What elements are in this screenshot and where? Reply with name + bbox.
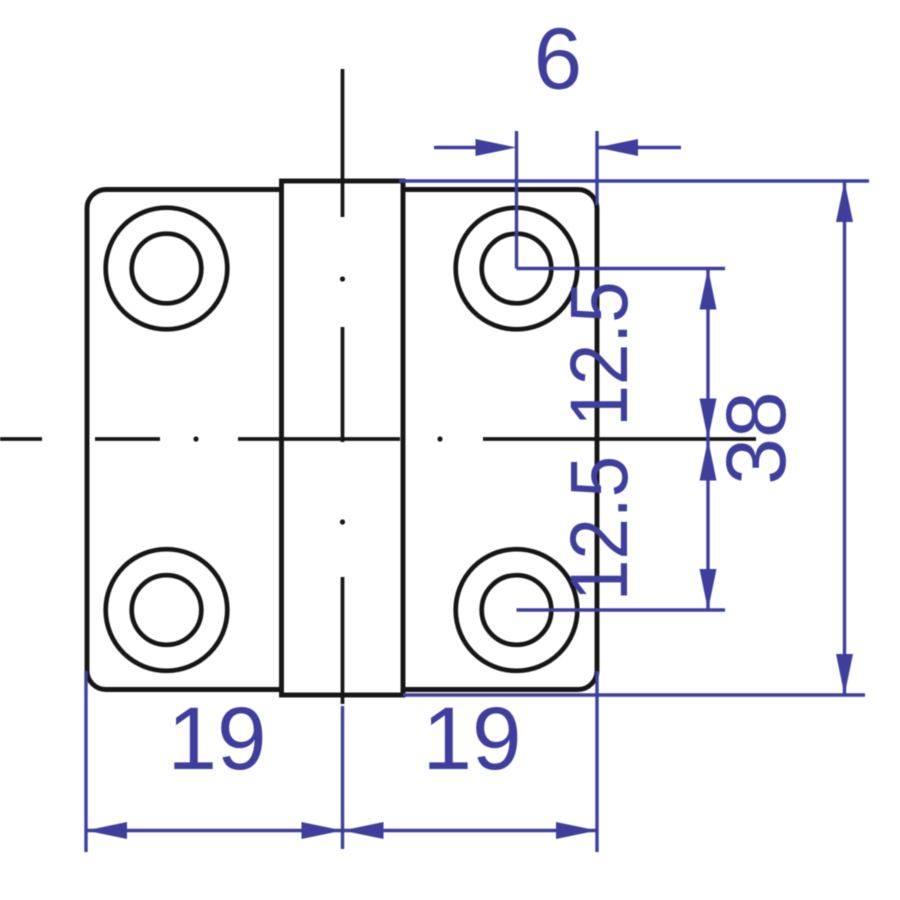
dim 6 extension line at hole center [515,131,518,269]
svg-text:12.5: 12.5 [553,456,645,601]
arrow 19 left-left [86,822,127,839]
dim 19 extension right [595,671,598,852]
dim 38 top extension [399,179,869,182]
arrow 6 left [476,139,517,156]
hole top-left outer [106,208,228,330]
dim 12.5 upper line [706,269,709,440]
hole center line lower [517,608,726,611]
dim 19 extension left [84,671,87,852]
dim 6 line right tail [597,146,681,149]
barrel [282,181,404,695]
arrow 19 right-right [556,822,597,839]
svg-text:38: 38 [709,391,803,484]
pin centerline vertical [341,69,345,704]
arrow 19 right-left [343,822,384,839]
hole bottom-left inner [132,575,202,645]
arrow 19 left-right [302,822,343,839]
horizontal centerline dot 1 [193,436,198,441]
hole center line upper [517,267,726,270]
arrow 6 right [597,139,638,156]
dim 19 right line [343,829,598,832]
dim 6 line left tail [434,146,478,149]
horizontal centerline [0,437,756,441]
svg-text:19: 19 [423,688,522,788]
arrow 12.5 upper top [700,269,717,310]
hole bottom-right inner [482,575,552,645]
dim 6 extension line at plate edge [595,131,598,205]
dim 12.5 lower line [706,440,709,611]
arrow 38 bottom [836,654,853,695]
svg-text:6: 6 [534,11,582,108]
hole top-right inner [482,234,552,304]
svg-text:19: 19 [168,688,267,788]
hole bottom-right outer [456,549,578,671]
horizontal centerline dot 2 [437,436,442,441]
dim 38 line [843,181,846,695]
hole top-left inner [132,234,202,304]
pin centerline dot 2 [340,519,345,524]
right leaf [403,190,597,690]
pin centerline dot 1 [340,276,345,281]
arrow 38 top [836,181,853,222]
dim 19 extension center [341,706,344,849]
arrow 12.5 upper bottom [700,399,717,440]
svg-text:12.5: 12.5 [553,281,645,426]
left leaf [87,190,282,690]
hole top-right outer [456,208,578,330]
arrow 12.5 lower bottom [700,569,717,610]
dim 38 bottom extension [403,693,865,696]
arrow 12.5 lower top [700,440,717,481]
hole bottom-left outer [106,549,228,671]
dim 19 left line [86,829,343,832]
